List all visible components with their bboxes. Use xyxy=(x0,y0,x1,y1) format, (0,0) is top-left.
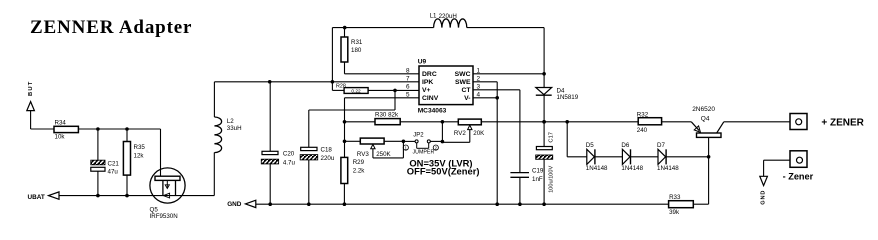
svg-text:1N5819: 1N5819 xyxy=(557,94,579,101)
svg-text:U9: U9 xyxy=(418,59,427,66)
svg-text:D6: D6 xyxy=(621,142,629,149)
svg-text:1nF: 1nF xyxy=(532,176,543,183)
svg-text:RV3: RV3 xyxy=(357,151,369,158)
svg-text:- Zener: - Zener xyxy=(783,172,814,182)
svg-text:GND: GND xyxy=(761,190,767,205)
svg-text:OFF=50V(Zener): OFF=50V(Zener) xyxy=(407,166,480,177)
svg-text:D7: D7 xyxy=(657,142,665,149)
svg-text:C19: C19 xyxy=(532,168,544,175)
svg-text:2N6520: 2N6520 xyxy=(692,106,715,113)
svg-text:IRF9530N: IRF9530N xyxy=(150,213,178,220)
svg-text:12k: 12k xyxy=(134,152,145,159)
svg-text:C20: C20 xyxy=(283,150,295,157)
svg-text:1N4148: 1N4148 xyxy=(657,165,679,172)
svg-text:CT: CT xyxy=(461,87,471,94)
svg-text:R29: R29 xyxy=(353,159,365,166)
svg-text:R34: R34 xyxy=(55,119,67,126)
svg-text:39k: 39k xyxy=(669,209,680,216)
svg-text:220uH: 220uH xyxy=(439,13,457,20)
svg-text:R30 82k: R30 82k xyxy=(375,112,399,119)
svg-text:33uH: 33uH xyxy=(227,125,242,132)
svg-text:6: 6 xyxy=(406,84,410,91)
svg-text:SWE: SWE xyxy=(455,79,471,86)
svg-text:C18: C18 xyxy=(321,146,333,153)
svg-text:R28: R28 xyxy=(336,83,346,89)
svg-text:100u/100V: 100u/100V xyxy=(548,165,554,192)
svg-text:4.7u: 4.7u xyxy=(283,159,296,166)
svg-text:C17: C17 xyxy=(549,132,555,143)
svg-text:8: 8 xyxy=(406,68,410,75)
svg-text:IPK: IPK xyxy=(422,79,433,86)
svg-text:1N4148: 1N4148 xyxy=(621,165,643,172)
svg-text:10k: 10k xyxy=(55,134,66,141)
svg-text:V-: V- xyxy=(464,95,470,102)
svg-text:UBAT: UBAT xyxy=(28,194,45,201)
svg-text:R35: R35 xyxy=(134,144,146,151)
svg-text:L1: L1 xyxy=(430,12,437,19)
svg-text:CINV: CINV xyxy=(422,95,439,102)
svg-text:DRC: DRC xyxy=(422,71,437,78)
svg-text:0.22: 0.22 xyxy=(351,89,361,95)
svg-text:R32: R32 xyxy=(637,111,649,118)
svg-text:JP2: JP2 xyxy=(413,133,424,139)
svg-text:GND: GND xyxy=(227,201,242,208)
svg-text:20K: 20K xyxy=(473,130,485,137)
svg-text:MC34063: MC34063 xyxy=(418,107,447,114)
svg-text:1N4148: 1N4148 xyxy=(586,165,608,172)
svg-text:250K: 250K xyxy=(376,151,391,158)
svg-text:2.2k: 2.2k xyxy=(353,167,366,174)
svg-text:5: 5 xyxy=(406,92,410,99)
svg-text:Q4: Q4 xyxy=(701,116,710,123)
svg-text:180: 180 xyxy=(351,47,362,54)
svg-text:D5: D5 xyxy=(586,142,594,149)
svg-text:RV2: RV2 xyxy=(454,130,466,137)
svg-text:BUT: BUT xyxy=(28,80,34,96)
svg-text:R31: R31 xyxy=(351,39,363,46)
svg-text:L2: L2 xyxy=(227,118,234,125)
svg-text:240: 240 xyxy=(637,127,648,134)
svg-text:47u: 47u xyxy=(108,168,119,175)
svg-text:JUMPER: JUMPER xyxy=(413,149,435,155)
svg-text:C21: C21 xyxy=(108,161,120,168)
svg-text:V+: V+ xyxy=(422,87,431,94)
svg-text:ZENNER Adapter: ZENNER Adapter xyxy=(30,17,192,38)
svg-text:7: 7 xyxy=(406,76,410,83)
svg-text:220u: 220u xyxy=(321,155,335,162)
svg-text:R33: R33 xyxy=(669,194,681,201)
svg-text:SWC: SWC xyxy=(455,71,471,78)
svg-text:+ ZENER: + ZENER xyxy=(821,117,864,128)
